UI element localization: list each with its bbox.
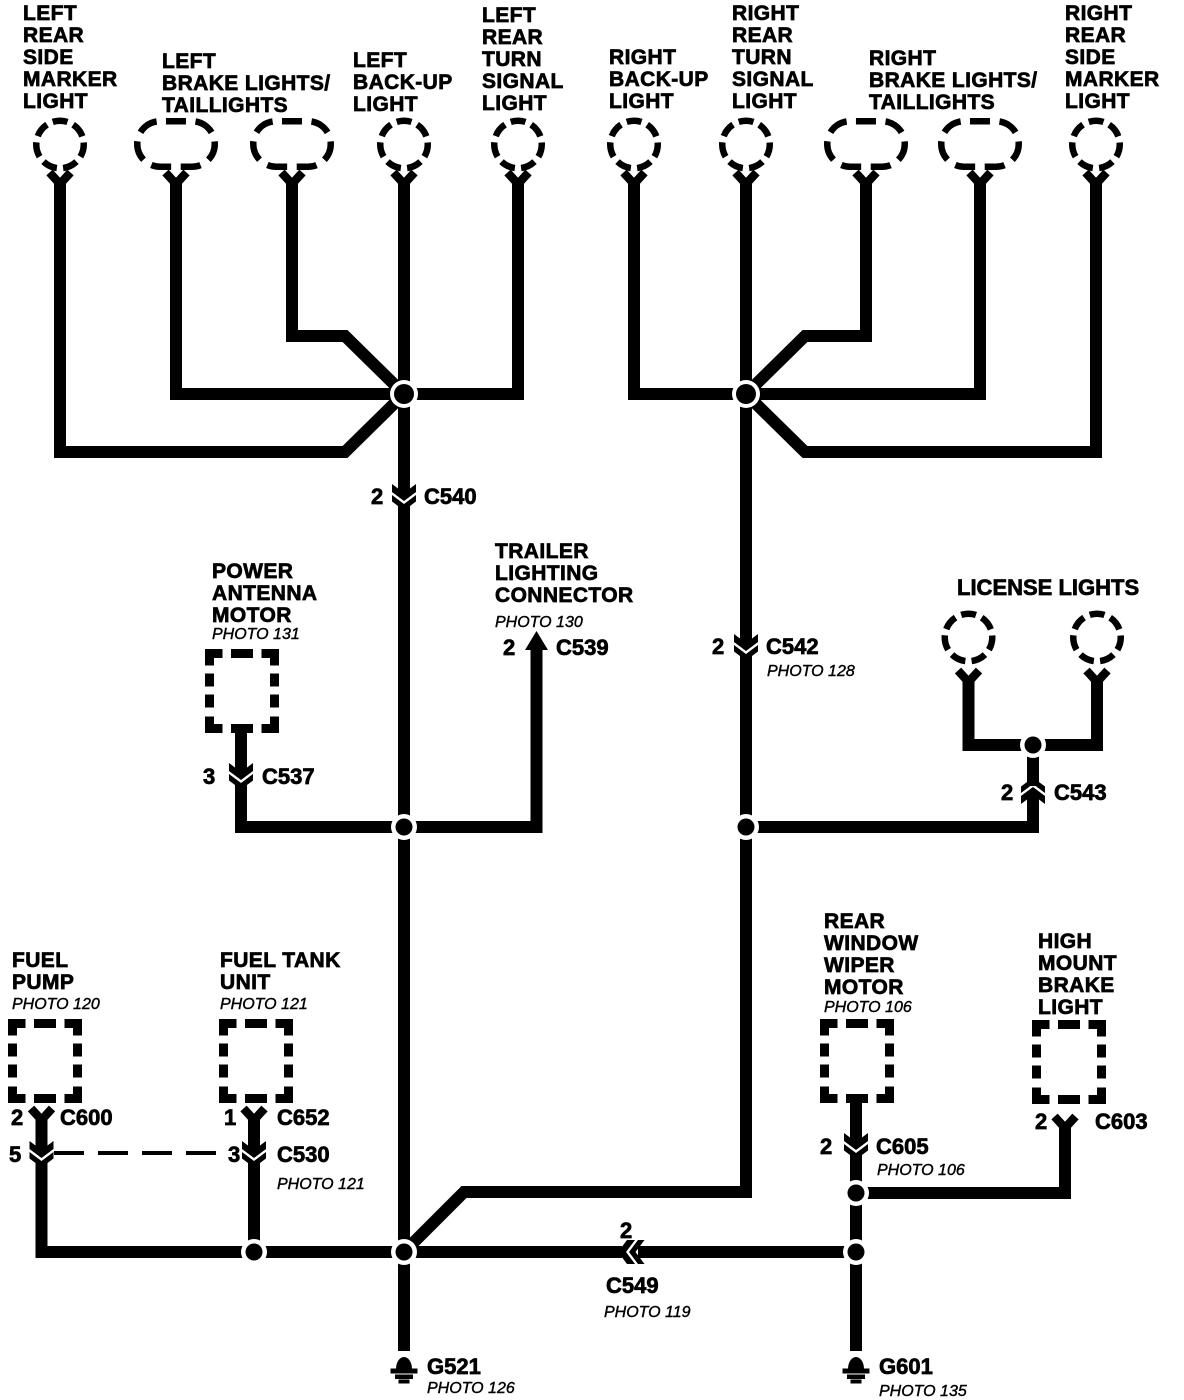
connector C549 arrow symbol <box>618 1240 645 1264</box>
svg-text:TAILLIGHTS: TAILLIGHTS <box>162 94 288 117</box>
junction node trunk / bus <box>391 1239 417 1265</box>
high mount brake light box <box>1037 1025 1102 1100</box>
wire right trunk C542 down then across to bottom junction <box>405 655 746 1251</box>
svg-text:MARKER: MARKER <box>1065 68 1160 91</box>
junction node license lights <box>1020 732 1046 758</box>
lamp left rear side marker light <box>36 121 84 184</box>
junction node antenna/trailer <box>391 814 417 840</box>
lamp license light left <box>945 614 993 682</box>
connector C540 symbol <box>392 484 416 511</box>
svg-text:REAR: REAR <box>482 26 543 49</box>
svg-text:RIGHT: RIGHT <box>609 46 676 69</box>
svg-text:SIGNAL: SIGNAL <box>732 68 814 91</box>
junction node fuel tank / bus <box>241 1239 267 1265</box>
wire high mount brake light C603 to wiper junction <box>856 1126 1065 1193</box>
svg-text:BRAKE LIGHTS/: BRAKE LIGHTS/ <box>869 69 1038 92</box>
lamp right rear turn signal light <box>722 121 770 184</box>
wire license junction to C543 <box>1027 745 1039 786</box>
ground G521 symbol <box>391 1357 418 1384</box>
svg-text:WIPER: WIPER <box>824 954 895 977</box>
svg-text:TURN: TURN <box>482 48 542 71</box>
svg-text:LEFT: LEFT <box>482 4 536 27</box>
svg-text:MOTOR: MOTOR <box>824 976 904 999</box>
svg-text:2: 2 <box>371 484 383 509</box>
svg-text:SIDE: SIDE <box>23 46 74 69</box>
svg-text:2: 2 <box>1035 1109 1047 1134</box>
svg-text:2: 2 <box>11 1105 23 1130</box>
svg-text:MARKER: MARKER <box>23 68 118 91</box>
wire right back-up light to junction <box>634 180 746 394</box>
svg-text:1: 1 <box>224 1105 236 1130</box>
svg-text:2: 2 <box>1001 780 1013 805</box>
svg-text:UNIT: UNIT <box>220 971 271 994</box>
wire right taillight 2 to junction <box>746 180 980 394</box>
svg-text:PHOTO 119: PHOTO 119 <box>604 1304 691 1321</box>
wire right taillight 1 to junction <box>746 180 866 394</box>
junction node left lamps <box>390 380 418 408</box>
svg-text:REAR: REAR <box>1065 24 1126 47</box>
svg-text:BACK-UP: BACK-UP <box>609 68 709 91</box>
svg-text:CONNECTOR: CONNECTOR <box>495 584 634 607</box>
svg-text:MOTOR: MOTOR <box>212 604 292 627</box>
lamp right back-up light <box>610 121 658 184</box>
svg-text:PHOTO 131: PHOTO 131 <box>212 626 300 643</box>
svg-text:3: 3 <box>228 1142 240 1167</box>
wire rear window wiper motor to C605 <box>850 1103 862 1144</box>
lamp right rear side marker light <box>1072 121 1120 184</box>
svg-text:LIGHT: LIGHT <box>609 90 674 113</box>
svg-text:C652: C652 <box>277 1105 330 1130</box>
wire fuel pump to bottom bus and bus to C549 <box>42 1162 623 1252</box>
svg-text:FUEL: FUEL <box>12 949 68 972</box>
svg-text:POWER: POWER <box>212 560 293 583</box>
dashed wire connector 5 to connector 3 <box>54 1151 220 1155</box>
svg-text:C540: C540 <box>424 484 477 509</box>
svg-text:PHOTO 128: PHOTO 128 <box>767 663 855 680</box>
connector C539 arrow symbol <box>525 631 548 650</box>
svg-text:C530: C530 <box>277 1142 330 1167</box>
wire right rear side marker light to junction <box>746 180 1096 452</box>
ground G601 symbol <box>843 1357 870 1384</box>
lamp right brake/taillight 2 <box>941 121 1019 184</box>
svg-text:PHOTO 130: PHOTO 130 <box>495 614 583 631</box>
svg-text:LIGHT: LIGHT <box>482 92 547 115</box>
svg-text:2: 2 <box>503 635 515 660</box>
connector C605 symbol <box>844 1133 868 1160</box>
wire fuel pump C600 to connector 5 <box>36 1118 48 1152</box>
connector C600 symbol <box>31 1109 52 1121</box>
lamp license light right <box>1073 614 1121 682</box>
wire fuel tank C530 to bus <box>248 1162 260 1252</box>
wire left back-up light to junction <box>398 180 410 495</box>
svg-text:PHOTO 106: PHOTO 106 <box>877 1162 965 1179</box>
fuel pump box <box>13 1024 78 1099</box>
svg-text:PHOTO 126: PHOTO 126 <box>427 1380 515 1397</box>
wire left trunk C540 to ground G521 <box>398 505 410 1351</box>
svg-text:FUEL TANK: FUEL TANK <box>220 949 341 972</box>
wire right rear turn signal light to junction <box>740 180 752 394</box>
lamp left rear turn signal light <box>494 121 542 184</box>
svg-text:REAR: REAR <box>732 24 793 47</box>
svg-text:C600: C600 <box>60 1105 113 1130</box>
junction node wiper / bus <box>843 1239 869 1265</box>
svg-text:C543: C543 <box>1054 780 1107 805</box>
svg-text:LEFT: LEFT <box>162 50 216 73</box>
svg-text:PHOTO 121: PHOTO 121 <box>220 996 308 1013</box>
svg-text:2: 2 <box>820 1134 832 1159</box>
svg-text:HIGH: HIGH <box>1038 930 1092 953</box>
junction node wiper / high mount <box>843 1180 869 1206</box>
svg-text:MOUNT: MOUNT <box>1038 952 1117 975</box>
wire C537 to junction node <box>241 784 404 827</box>
wire bus C549 to wiper junction <box>638 1246 856 1258</box>
svg-text:LIGHTING: LIGHTING <box>495 562 599 585</box>
wire license light left leg <box>969 680 1034 745</box>
svg-text:SIGNAL: SIGNAL <box>482 70 564 93</box>
svg-text:BRAKE: BRAKE <box>1038 974 1115 997</box>
svg-text:2: 2 <box>712 634 724 659</box>
svg-text:ANTENNA: ANTENNA <box>212 582 317 605</box>
wire left rear side marker light to junction <box>60 180 404 452</box>
wire left taillight 2 to junction <box>292 180 404 394</box>
svg-text:SIDE: SIDE <box>1065 46 1116 69</box>
svg-text:RIGHT: RIGHT <box>1065 2 1132 25</box>
svg-text:TURN: TURN <box>732 46 792 69</box>
lamp left brake/taillight 1 <box>137 121 215 184</box>
svg-text:RIGHT: RIGHT <box>869 47 936 70</box>
svg-text:PUMP: PUMP <box>12 971 74 994</box>
connector 5 symbol <box>30 1141 54 1168</box>
rear window wiper motor box <box>825 1024 890 1099</box>
svg-text:PHOTO 120: PHOTO 120 <box>12 996 100 1013</box>
svg-text:REAR: REAR <box>824 910 885 933</box>
svg-text:G601: G601 <box>879 1354 933 1379</box>
svg-text:LIGHT: LIGHT <box>23 90 88 113</box>
wire fuel tank unit C652 to C530 <box>248 1118 260 1152</box>
svg-text:BACK-UP: BACK-UP <box>353 71 453 94</box>
svg-text:C537: C537 <box>262 764 315 789</box>
svg-text:5: 5 <box>9 1142 21 1167</box>
svg-text:3: 3 <box>203 764 215 789</box>
wire right trunk junction to C542 <box>740 394 752 645</box>
svg-text:LIGHT: LIGHT <box>1038 996 1103 1019</box>
svg-text:PHOTO 121: PHOTO 121 <box>277 1176 365 1193</box>
junction node right trunk / license bus <box>733 814 759 840</box>
junction node right lamps <box>732 380 760 408</box>
svg-text:C542: C542 <box>766 634 819 659</box>
lamp left brake/taillight 2 <box>253 121 331 184</box>
connector C530 symbol <box>242 1141 266 1168</box>
wire license light right leg <box>1033 680 1097 745</box>
svg-text:RIGHT: RIGHT <box>732 2 799 25</box>
svg-text:G521: G521 <box>427 1354 481 1379</box>
lamp left back-up light <box>380 121 428 184</box>
svg-text:LEFT: LEFT <box>23 2 77 25</box>
connector C542 symbol <box>734 634 758 661</box>
svg-text:TAILLIGHTS: TAILLIGHTS <box>869 91 995 114</box>
connector C652 symbol <box>244 1109 265 1121</box>
svg-text:WINDOW: WINDOW <box>824 932 919 955</box>
connector C603 symbol <box>1055 1117 1076 1129</box>
svg-text:C539: C539 <box>556 635 609 660</box>
wire power antenna motor to C537 <box>235 729 247 774</box>
lamp right brake/taillight 1 <box>827 121 905 184</box>
svg-text:C603: C603 <box>1095 1109 1148 1134</box>
svg-text:PHOTO 106: PHOTO 106 <box>824 999 912 1016</box>
svg-text:2: 2 <box>620 1218 632 1243</box>
svg-text:C605: C605 <box>876 1134 929 1159</box>
svg-text:REAR: REAR <box>23 24 84 47</box>
wire C605 to bus and ground G601 <box>850 1154 862 1351</box>
wire left taillight 1 to junction <box>176 180 404 394</box>
wire trailer lighting connector C539 to junction node <box>404 645 537 827</box>
svg-text:LIGHT: LIGHT <box>1065 90 1130 113</box>
svg-text:LEFT: LEFT <box>353 49 407 72</box>
svg-text:TRAILER: TRAILER <box>495 540 589 563</box>
wire C543 to bus and to right trunk junction <box>746 793 1033 827</box>
wire left rear turn signal light to junction <box>404 180 518 394</box>
svg-text:LICENSE LIGHTS: LICENSE LIGHTS <box>957 575 1139 600</box>
svg-text:BRAKE LIGHTS/: BRAKE LIGHTS/ <box>162 72 331 95</box>
power antenna motor box <box>210 654 275 729</box>
svg-text:C549: C549 <box>606 1273 659 1298</box>
fuel tank unit box <box>224 1024 289 1099</box>
svg-text:LIGHT: LIGHT <box>732 90 797 113</box>
connector C537 symbol <box>229 763 253 790</box>
svg-text:LIGHT: LIGHT <box>353 93 418 116</box>
svg-text:PHOTO 135: PHOTO 135 <box>879 1383 967 1400</box>
connector C543 symbol <box>1021 778 1045 805</box>
